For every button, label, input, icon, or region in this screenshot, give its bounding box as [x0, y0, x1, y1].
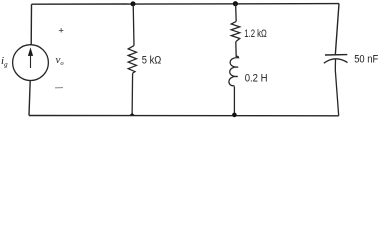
svg-text:0.2 H: 0.2 H — [245, 73, 268, 85]
resistor 1.2 kOhm — [231, 21, 240, 41]
polarity minus — [55, 87, 63, 89]
wire right bottom segment — [335, 59, 338, 116]
resistor 5 kOhm — [128, 46, 136, 74]
svg-text:ig: ig — [1, 55, 8, 69]
wire between R2 and L1 — [235, 42, 237, 57]
wire R2 top lead — [235, 4, 238, 22]
capacitor 50 nF — [324, 55, 348, 64]
wire left bottom segment — [29, 80, 30, 115]
wire bottom rail — [29, 115, 339, 117]
node junction dot top of middle branch — [233, 1, 238, 6]
svg-text:50 nF: 50 nF — [354, 54, 378, 66]
svg-text:vo: vo — [56, 54, 65, 67]
svg-text:5 kΩ: 5 kΩ — [142, 54, 162, 66]
wire R1 top lead — [132, 4, 135, 46]
wire right top segment — [335, 4, 339, 55]
node junction dot top of R1 — [131, 1, 136, 6]
wire left top segment — [30, 4, 32, 45]
node junction dot bottom of middle branch — [232, 113, 237, 118]
inductor 0.2 H — [229, 56, 239, 85]
svg-text:+: + — [58, 26, 64, 37]
svg-text:1.2 kΩ: 1.2 kΩ — [244, 28, 266, 40]
node junction blob bottom of R1 — [129, 113, 135, 116]
current source ig — [13, 45, 49, 81]
wire L1 bottom lead — [233, 86, 235, 115]
wire top rail — [32, 3, 340, 6]
wire R1 bottom lead — [131, 73, 134, 115]
